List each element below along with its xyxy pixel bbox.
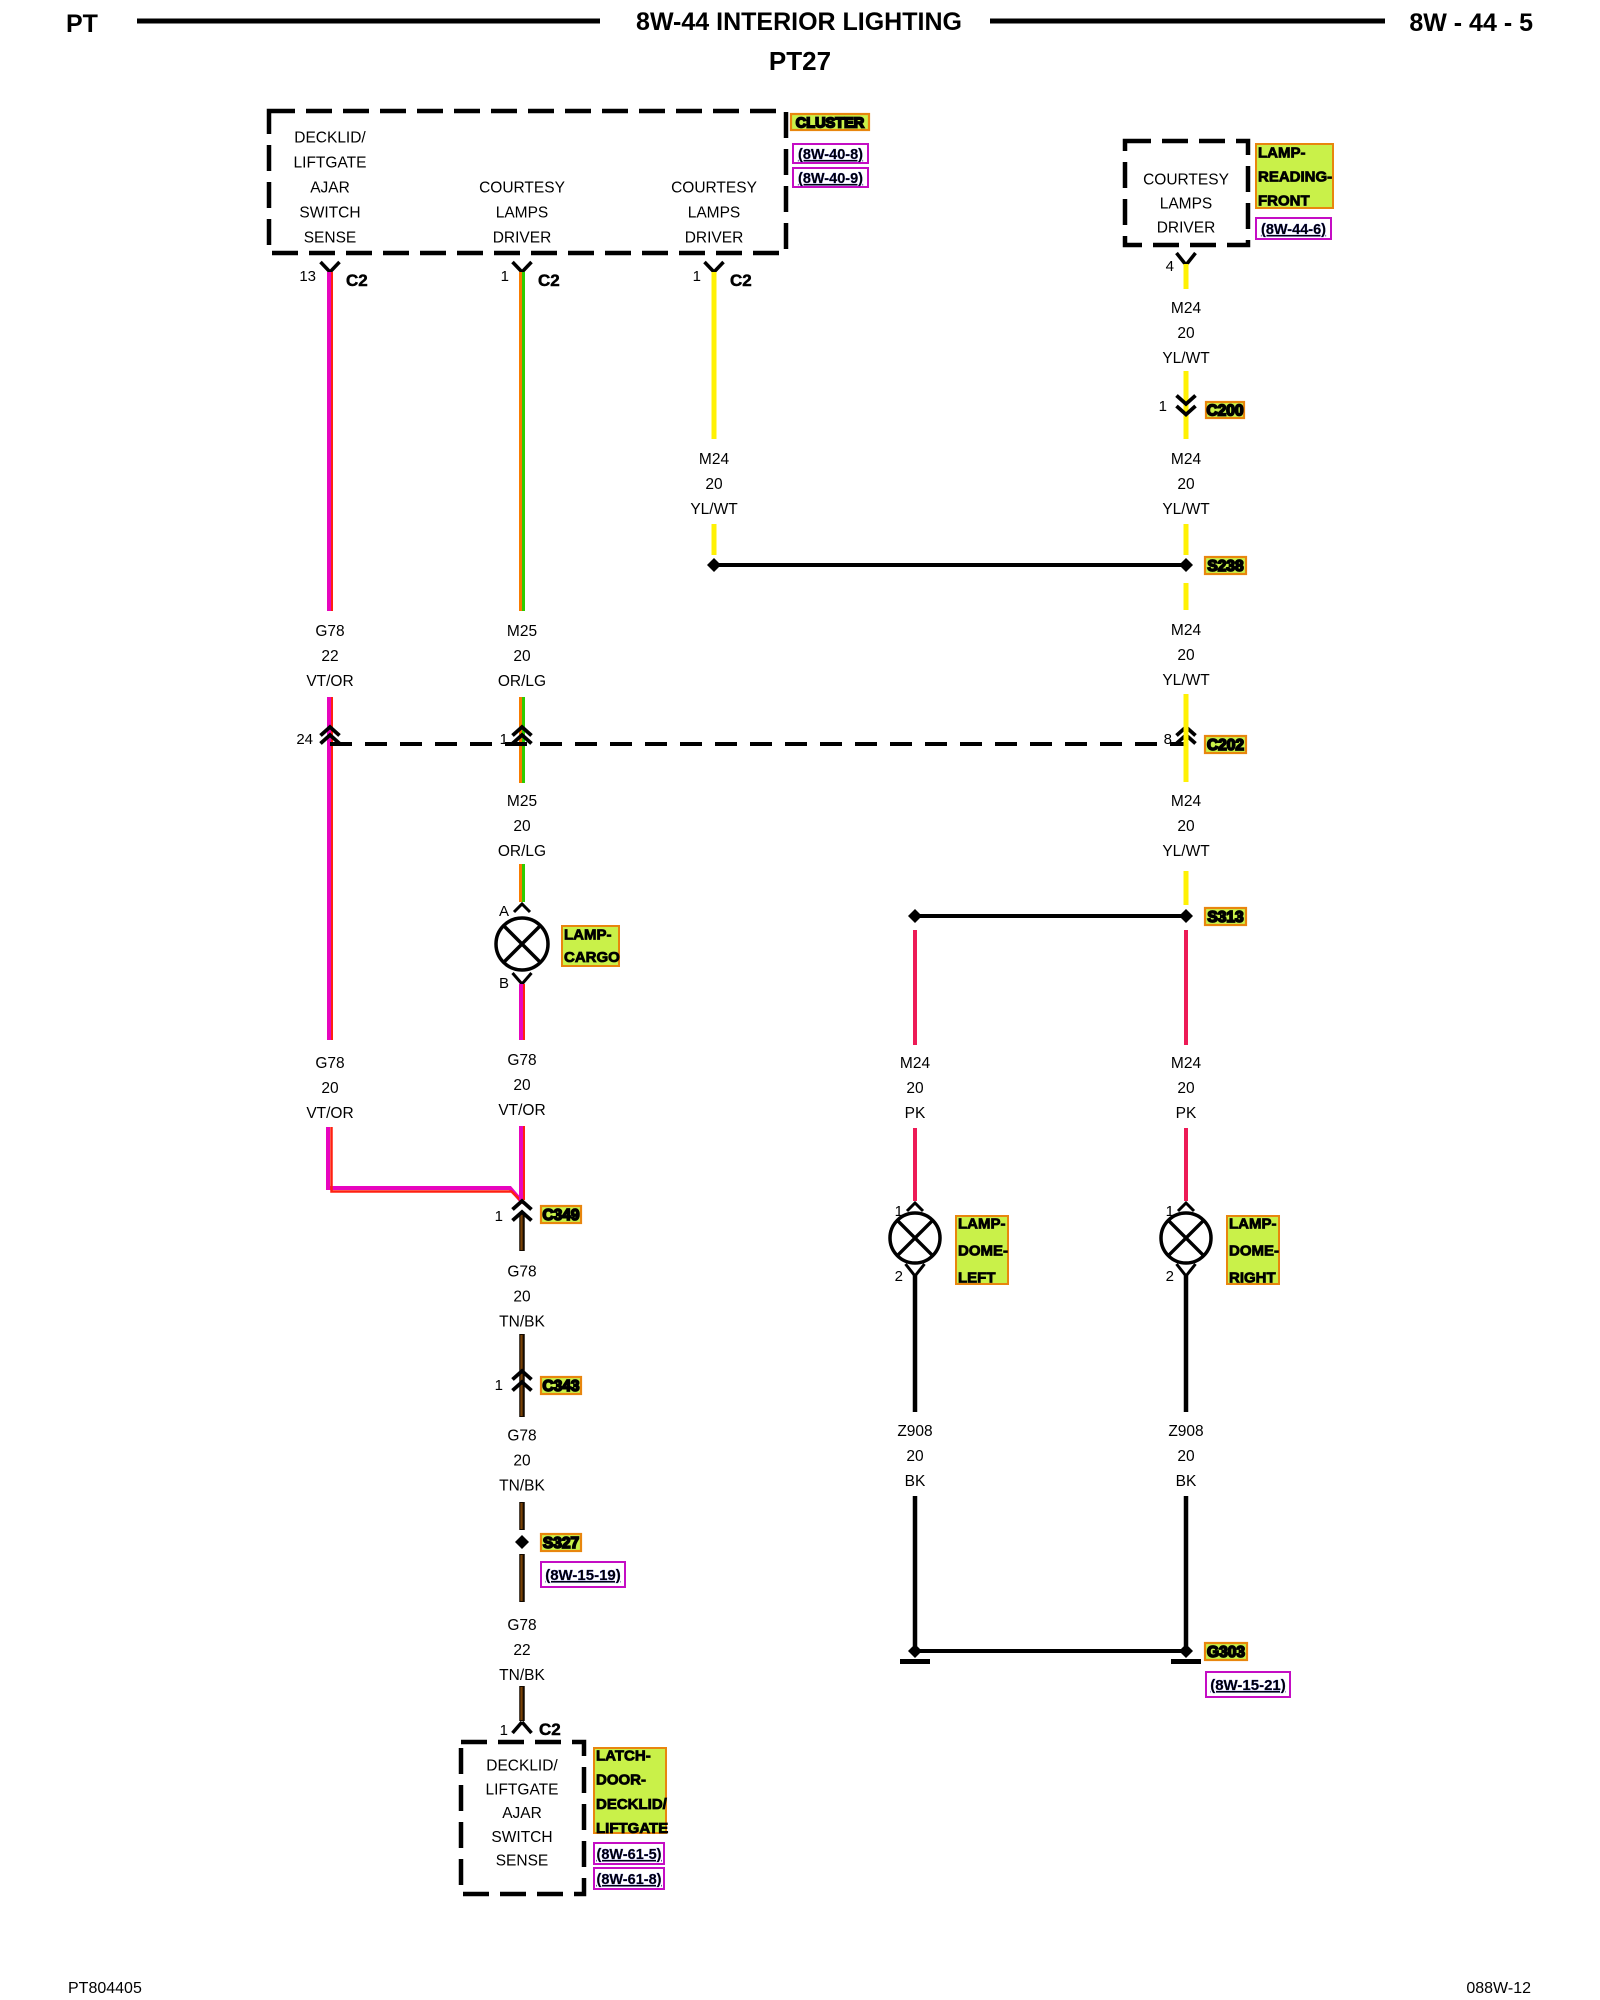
- svg-text:DECKLID/: DECKLID/: [294, 130, 366, 147]
- svg-text:S238: S238: [1207, 558, 1244, 575]
- svg-text:C2: C2: [346, 271, 368, 290]
- svg-text:M24: M24: [1171, 793, 1202, 810]
- label C202: [1205, 736, 1246, 753]
- svg-text:24: 24: [296, 731, 313, 748]
- svg-text:YL/WT: YL/WT: [1162, 672, 1210, 689]
- svg-text:20: 20: [1177, 647, 1195, 664]
- wire G78 TN/BK below S327: [519, 1554, 525, 1602]
- label S238: [1205, 557, 1246, 574]
- label LAMP-DOME-RIGHT: [1227, 1216, 1279, 1284]
- splice S313 node left: [908, 909, 922, 923]
- link 8W-40-8: [793, 144, 868, 163]
- svg-text:DRIVER: DRIVER: [1157, 220, 1216, 237]
- svg-text:DOME-: DOME-: [1229, 1243, 1279, 1260]
- svg-text:PK: PK: [905, 1105, 926, 1122]
- svg-text:LAMPS: LAMPS: [1160, 196, 1213, 213]
- svg-text:VT/OR: VT/OR: [306, 1105, 353, 1122]
- svg-text:(8W-61-8): (8W-61-8): [597, 1872, 662, 1888]
- label LATCH-DOOR-DECKLID/LIFTGATE: [594, 1748, 666, 1833]
- svg-text:1: 1: [1159, 398, 1167, 415]
- svg-text:LIFTGATE: LIFTGATE: [294, 155, 367, 172]
- svg-text:C2: C2: [730, 271, 752, 290]
- svg-text:CLUSTER: CLUSTER: [796, 116, 865, 132]
- label LAMP-CARGO: [562, 926, 619, 966]
- header rule left: [137, 19, 600, 24]
- svg-text:DOOR-: DOOR-: [596, 1772, 646, 1789]
- lamp LAMP-CARGO symbol: [496, 918, 548, 970]
- svg-text:LAMP-: LAMP-: [1229, 1216, 1277, 1233]
- svg-text:CARGO: CARGO: [564, 949, 620, 966]
- svg-text:LAMP-: LAMP-: [1258, 145, 1306, 162]
- svg-text:20: 20: [513, 818, 531, 835]
- svg-text:READING-: READING-: [1258, 169, 1332, 186]
- svg-text:20: 20: [1177, 476, 1195, 493]
- svg-text:M25: M25: [507, 793, 537, 810]
- svg-text:Z908: Z908: [897, 1423, 932, 1440]
- wire G78 TN/BK into decklid switch: [519, 1686, 525, 1721]
- svg-text:C200: C200: [1206, 403, 1243, 420]
- label LAMP-DOME-LEFT: [956, 1216, 1008, 1284]
- svg-text:1: 1: [495, 1208, 503, 1225]
- svg-text:DRIVER: DRIVER: [685, 230, 744, 247]
- decklid/liftgate ajar switch sense dashed box: [461, 1742, 584, 1894]
- svg-text:20: 20: [906, 1448, 924, 1465]
- svg-text:8: 8: [1164, 731, 1172, 748]
- svg-text:VT/OR: VT/OR: [498, 1102, 545, 1119]
- lamp LAMP-DOME-RIGHT symbol: [1161, 1213, 1211, 1263]
- label LAMP-READING-FRONT: [1256, 144, 1333, 208]
- svg-text:B: B: [499, 975, 509, 992]
- svg-text:S313: S313: [1207, 909, 1244, 926]
- svg-text:M24: M24: [1171, 451, 1202, 468]
- svg-text:YL/WT: YL/WT: [1162, 350, 1210, 367]
- splice S238 line: [714, 563, 1186, 567]
- wire M24 YL/WT through C202: [1184, 694, 1189, 782]
- svg-text:22: 22: [513, 1642, 530, 1659]
- svg-text:2: 2: [895, 1268, 903, 1285]
- svg-text:G78: G78: [507, 1617, 536, 1634]
- svg-text:20: 20: [513, 1289, 531, 1306]
- svg-text:20: 20: [1177, 818, 1195, 835]
- svg-text:(8W-44-6): (8W-44-6): [1261, 222, 1326, 238]
- label C343: [541, 1377, 581, 1394]
- wire G78 TN/BK through C343: [519, 1334, 525, 1417]
- inline connector C202 dashed line: [330, 742, 1186, 746]
- svg-text:COURTESY: COURTESY: [1143, 172, 1229, 189]
- wire G78 to C349: [519, 1126, 523, 1200]
- splice S238 node right: [1179, 558, 1193, 572]
- cluster dashed box: [269, 111, 786, 253]
- link 8W-15-19: [541, 1562, 625, 1587]
- wire M24 PK into dome lamp (left): [913, 1128, 917, 1201]
- wire M24 PK into dome lamp (right): [1184, 1128, 1188, 1201]
- svg-text:G78: G78: [507, 1428, 536, 1445]
- svg-text:20: 20: [705, 476, 723, 493]
- svg-text:2: 2: [1166, 1268, 1174, 1285]
- svg-text:M24: M24: [1171, 300, 1202, 317]
- label CLUSTER: [791, 114, 869, 130]
- svg-text:DECKLID/: DECKLID/: [486, 1758, 558, 1775]
- svg-text:C2: C2: [539, 1720, 561, 1739]
- svg-text:PT804405: PT804405: [68, 1980, 142, 1997]
- label S327: [541, 1534, 581, 1551]
- svg-text:C349: C349: [542, 1207, 579, 1224]
- svg-text:G78: G78: [315, 1055, 344, 1072]
- svg-text:088W-12: 088W-12: [1466, 1980, 1531, 1997]
- link 8W-61-5: [594, 1843, 664, 1864]
- svg-text:YL/WT: YL/WT: [1162, 501, 1210, 518]
- svg-text:1: 1: [500, 1722, 508, 1739]
- svg-text:4: 4: [1166, 258, 1174, 275]
- wire Z908 20 BK upper (right): [1184, 1275, 1189, 1412]
- svg-text:(8W-61-5): (8W-61-5): [597, 1847, 662, 1863]
- link 8W-61-8: [594, 1868, 664, 1889]
- ground G303 right symbol: [1179, 1644, 1193, 1658]
- svg-text:VT/OR: VT/OR: [306, 673, 353, 690]
- svg-text:YL/WT: YL/WT: [690, 501, 738, 518]
- svg-text:20: 20: [1177, 1080, 1195, 1097]
- wire G78 through C202: [327, 697, 331, 1040]
- svg-text:(8W-40-8): (8W-40-8): [798, 147, 863, 163]
- svg-text:LAMPS: LAMPS: [688, 205, 741, 222]
- splice S238 node left: [707, 558, 721, 572]
- svg-text:Z908: Z908: [1168, 1423, 1203, 1440]
- wire G78 TN/BK below C349: [519, 1212, 525, 1251]
- svg-text:13: 13: [299, 268, 316, 285]
- svg-text:20: 20: [1177, 1448, 1195, 1465]
- svg-text:COURTESY: COURTESY: [671, 180, 757, 197]
- wire M24 20 PK upper (left): [913, 930, 917, 1045]
- svg-text:BK: BK: [905, 1473, 926, 1490]
- splice S327: [515, 1535, 529, 1549]
- svg-text:LEFT: LEFT: [958, 1270, 996, 1287]
- svg-text:8W-44 INTERIOR LIGHTING: 8W-44 INTERIOR LIGHTING: [636, 8, 962, 36]
- svg-text:1: 1: [693, 268, 701, 285]
- header rule right: [990, 19, 1385, 24]
- svg-text:FRONT: FRONT: [1258, 193, 1310, 210]
- wire Z908 20 BK upper (left): [913, 1275, 918, 1412]
- svg-text:G78: G78: [315, 623, 344, 640]
- svg-text:LAMP-: LAMP-: [958, 1216, 1006, 1233]
- svg-text:1: 1: [500, 731, 508, 748]
- svg-text:RIGHT: RIGHT: [1229, 1270, 1276, 1287]
- svg-text:S327: S327: [543, 1535, 579, 1552]
- svg-text:BK: BK: [1176, 1473, 1197, 1490]
- wire Z908 BK to ground (left): [913, 1496, 918, 1646]
- svg-text:8W - 44 - 5: 8W - 44 - 5: [1409, 9, 1533, 37]
- wire G78 TN/BK to S327: [519, 1502, 525, 1530]
- splice S313 node right: [1179, 909, 1193, 923]
- wire M24 20 YL/WT top segment (col4): [1184, 264, 1189, 289]
- svg-text:(8W-15-21): (8W-15-21): [1210, 1677, 1286, 1694]
- lamp LAMP-DOME-LEFT symbol: [890, 1213, 940, 1263]
- svg-text:C343: C343: [542, 1378, 579, 1395]
- svg-text:M25: M25: [507, 623, 537, 640]
- label C200: [1206, 402, 1244, 418]
- ground G303 left symbol: [908, 1644, 922, 1658]
- svg-text:G78: G78: [507, 1264, 536, 1281]
- svg-text:DRIVER: DRIVER: [493, 230, 552, 247]
- svg-text:TN/BK: TN/BK: [499, 1314, 545, 1331]
- svg-text:OR/LG: OR/LG: [498, 673, 546, 690]
- svg-text:20: 20: [1177, 325, 1195, 342]
- label G303: [1205, 1643, 1247, 1660]
- svg-text:TN/BK: TN/BK: [499, 1667, 545, 1684]
- ground G303 line: [915, 1649, 1186, 1653]
- svg-text:DOME-: DOME-: [958, 1243, 1008, 1260]
- svg-text:G303: G303: [1207, 1644, 1245, 1661]
- svg-text:M24: M24: [1171, 622, 1202, 639]
- svg-text:SWITCH: SWITCH: [491, 1829, 552, 1846]
- svg-text:22: 22: [321, 648, 338, 665]
- svg-text:(8W-40-9): (8W-40-9): [798, 171, 863, 187]
- svg-text:20: 20: [321, 1080, 339, 1097]
- svg-text:M24: M24: [1171, 1055, 1202, 1072]
- wire G78 L-turn to C349: [328, 1127, 522, 1202]
- link 8W-40-9: [793, 168, 868, 187]
- svg-text:OR/LG: OR/LG: [498, 843, 546, 860]
- svg-text:SENSE: SENSE: [496, 1853, 549, 1870]
- svg-text:20: 20: [513, 1077, 531, 1094]
- svg-text:PT27: PT27: [769, 46, 831, 76]
- link 8W-44-6: [1256, 218, 1331, 239]
- wire M24 YL/WT through C200: [1184, 371, 1189, 439]
- svg-text:SENSE: SENSE: [304, 230, 357, 247]
- svg-text:LAMPS: LAMPS: [496, 205, 549, 222]
- svg-text:1: 1: [495, 1377, 503, 1394]
- link 8W-15-21: [1206, 1672, 1290, 1697]
- svg-text:DECKLID/: DECKLID/: [596, 1796, 668, 1813]
- svg-text:(8W-15-19): (8W-15-19): [545, 1567, 621, 1584]
- svg-text:G78: G78: [507, 1052, 536, 1069]
- svg-text:LATCH-: LATCH-: [596, 1748, 651, 1765]
- wire M25 20 OR/LG upper segment: [519, 272, 522, 611]
- wire M25 into cargo lamp: [519, 864, 522, 902]
- splice S313 line: [915, 914, 1186, 918]
- svg-text:A: A: [499, 903, 509, 920]
- svg-text:20: 20: [513, 1453, 531, 1470]
- wire G78 20 VT/OR from cargo lamp: [519, 984, 523, 1040]
- svg-text:LIFTGATE: LIFTGATE: [486, 1781, 559, 1798]
- wire Z908 BK to ground (right): [1184, 1496, 1189, 1646]
- svg-text:C2: C2: [538, 271, 560, 290]
- label S313: [1205, 908, 1246, 925]
- wire M24 20 YL/WT (col3): [712, 272, 717, 439]
- svg-text:1: 1: [501, 268, 509, 285]
- wire M24 20 PK upper (right): [1184, 930, 1188, 1045]
- wire M25 through C202: [519, 697, 522, 783]
- svg-text:PT: PT: [66, 10, 98, 38]
- wire G78 22 VT/OR upper segment: [327, 272, 331, 611]
- svg-text:TN/BK: TN/BK: [499, 1478, 545, 1495]
- svg-text:COURTESY: COURTESY: [479, 180, 565, 197]
- svg-text:AJAR: AJAR: [502, 1805, 542, 1822]
- svg-text:20: 20: [513, 648, 531, 665]
- courtesy lamps driver dashed box (top right): [1125, 141, 1248, 245]
- svg-text:M24: M24: [900, 1055, 931, 1072]
- svg-text:LIFTGATE: LIFTGATE: [596, 1820, 668, 1837]
- svg-text:20: 20: [906, 1080, 924, 1097]
- svg-text:SWITCH: SWITCH: [299, 205, 360, 222]
- svg-text:LAMP-: LAMP-: [564, 927, 612, 944]
- svg-text:PK: PK: [1176, 1105, 1197, 1122]
- label C349: [541, 1206, 581, 1223]
- svg-text:C202: C202: [1207, 737, 1244, 754]
- svg-text:YL/WT: YL/WT: [1162, 843, 1210, 860]
- svg-text:AJAR: AJAR: [310, 180, 350, 197]
- svg-text:M24: M24: [699, 451, 730, 468]
